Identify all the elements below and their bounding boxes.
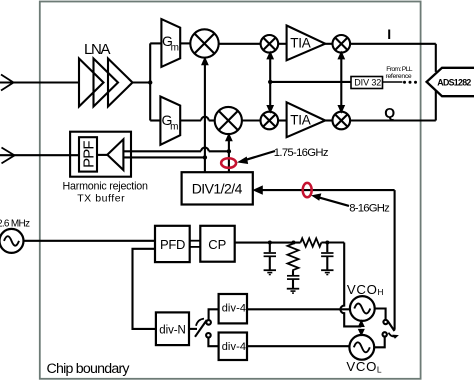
svg-text:ADS1282: ADS1282 — [437, 77, 471, 87]
svg-text:PPF: PPF — [81, 141, 98, 168]
svg-text:CP: CP — [208, 237, 226, 252]
svg-text:m: m — [171, 43, 179, 54]
svg-text:TIA: TIA — [290, 36, 311, 51]
svg-text:div-4: div-4 — [222, 302, 246, 314]
svg-text:2.6 MHz: 2.6 MHz — [0, 218, 30, 229]
svg-text:From: PLL: From: PLL — [386, 66, 412, 73]
svg-text:DIV 32: DIV 32 — [354, 77, 381, 87]
svg-text:Chip boundary: Chip boundary — [47, 361, 131, 377]
svg-text:Harmonic rejection: Harmonic rejection — [63, 181, 148, 193]
svg-text:8-16GHz: 8-16GHz — [349, 203, 390, 215]
svg-text:1.75-16GHz: 1.75-16GHz — [274, 147, 329, 159]
svg-text:VCO: VCO — [347, 282, 377, 297]
svg-text:PFD: PFD — [160, 237, 185, 252]
svg-text:VCO: VCO — [346, 359, 376, 374]
svg-text:DIV1/2/4: DIV1/2/4 — [192, 181, 243, 197]
svg-text:H: H — [377, 287, 383, 297]
svg-text:I: I — [387, 26, 391, 42]
svg-text:reference: reference — [386, 73, 412, 80]
svg-text:L: L — [377, 365, 382, 375]
svg-text:div-4: div-4 — [222, 341, 246, 353]
svg-text:LNA: LNA — [84, 41, 111, 58]
svg-text:div-N: div-N — [159, 324, 186, 336]
svg-text:TX buffer: TX buffer — [77, 193, 125, 205]
svg-text:Q: Q — [384, 105, 395, 121]
svg-text:m: m — [170, 121, 178, 132]
svg-text:TIA: TIA — [290, 112, 311, 127]
